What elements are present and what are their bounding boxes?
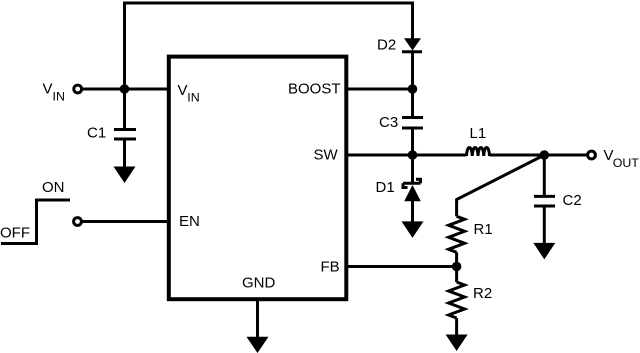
svg-text:SW: SW bbox=[314, 147, 339, 164]
svg-text:IN: IN bbox=[187, 90, 199, 104]
svg-text:IN: IN bbox=[53, 90, 65, 104]
svg-text:OFF: OFF bbox=[0, 225, 30, 242]
svg-text:D1: D1 bbox=[376, 179, 395, 196]
svg-text:C3: C3 bbox=[379, 114, 398, 131]
svg-text:L1: L1 bbox=[470, 125, 487, 142]
svg-text:GND: GND bbox=[242, 275, 276, 292]
svg-text:OUT: OUT bbox=[613, 156, 640, 170]
svg-text:ON: ON bbox=[42, 179, 65, 196]
svg-text:D2: D2 bbox=[377, 37, 396, 54]
svg-text:C2: C2 bbox=[563, 192, 582, 209]
svg-text:C1: C1 bbox=[87, 125, 106, 142]
svg-text:R2: R2 bbox=[473, 285, 492, 302]
svg-text:R1: R1 bbox=[474, 221, 493, 238]
svg-text:EN: EN bbox=[179, 213, 200, 230]
svg-text:BOOST: BOOST bbox=[288, 81, 341, 98]
svg-text:V: V bbox=[178, 82, 188, 99]
svg-text:V: V bbox=[43, 81, 53, 98]
svg-text:FB: FB bbox=[321, 259, 340, 276]
